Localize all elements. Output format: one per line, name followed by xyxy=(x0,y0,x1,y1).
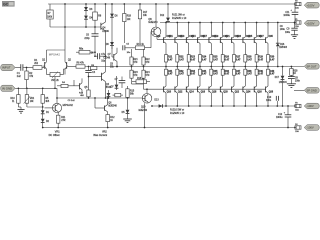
svg-text:Bias Current: Bias Current xyxy=(93,134,107,137)
label note bottom xyxy=(170,108,185,115)
diode D1 xyxy=(41,107,50,114)
resistor R37 emitter xyxy=(233,67,242,87)
resistor R29 emitter xyxy=(255,55,264,68)
resistor R17 xyxy=(138,4,148,45)
svg-text:R21: R21 xyxy=(133,59,138,61)
logo xyxy=(2,1,15,7)
connector P2 +100V xyxy=(304,20,319,26)
resistor R14 xyxy=(135,32,151,50)
wire base bus bottom xyxy=(144,88,267,90)
svg-text:MJE350: MJE350 xyxy=(139,110,148,112)
resistor R5 xyxy=(41,88,50,107)
svg-text:Q26: Q26 xyxy=(257,92,262,94)
ground input xyxy=(17,107,24,113)
svg-text:Q18: Q18 xyxy=(212,92,217,94)
svg-text:R8a: R8a xyxy=(79,49,84,51)
svg-text:VR1: VR1 xyxy=(55,131,60,134)
capacitor C7 xyxy=(115,77,126,89)
svg-text:Q22: Q22 xyxy=(235,92,240,94)
svg-text:MJE340: MJE340 xyxy=(108,106,117,108)
svg-text:Q21: Q21 xyxy=(225,36,230,38)
diode D12 rail xyxy=(160,4,170,23)
wire vas bus xyxy=(56,97,142,99)
transistor Q21 xyxy=(225,22,239,55)
trimmer R8 servo xyxy=(93,4,102,27)
wire D2-rail xyxy=(42,123,44,128)
svg-text:0.47: 0.47 xyxy=(247,73,252,76)
svg-text:0.47: 0.47 xyxy=(202,58,207,61)
svg-text:VR2: VR2 xyxy=(102,131,107,134)
transistor Q9 xyxy=(157,22,171,55)
resistor R10 xyxy=(10,88,20,107)
wire +V rail xyxy=(48,3,296,5)
transistor Q3 dc servo xyxy=(45,88,74,115)
svg-text:-100V: -100V xyxy=(306,126,314,130)
transistor Q13 xyxy=(180,22,194,55)
svg-text:D13: D13 xyxy=(154,99,159,101)
svg-text:R29: R29 xyxy=(259,57,264,59)
transistor Q23 xyxy=(237,22,251,55)
capacitor C4 feedback xyxy=(85,67,96,91)
resistor R1 xyxy=(33,60,44,69)
transistor Q22 xyxy=(232,86,240,107)
svg-text:R38: R38 xyxy=(247,71,252,73)
resistor R19 xyxy=(123,4,132,43)
svg-text:R17: R17 xyxy=(143,12,148,14)
svg-text:0.47: 0.47 xyxy=(247,58,252,61)
svg-text:0.47: 0.47 xyxy=(213,58,218,61)
svg-text:0.47: 0.47 xyxy=(236,73,241,76)
svg-text:1N5404: 1N5404 xyxy=(279,47,288,49)
svg-text:0.47: 0.47 xyxy=(213,73,218,76)
svg-text:1000u: 1000u xyxy=(283,15,290,17)
wire V+ drop xyxy=(64,4,66,50)
svg-text:R24: R24 xyxy=(202,56,207,59)
wire offset join xyxy=(27,106,44,108)
svg-text:1N5404: 1N5404 xyxy=(279,82,288,84)
capacitor C5 xyxy=(123,44,136,54)
svg-text:0.47: 0.47 xyxy=(270,73,275,76)
svg-text:Q19: Q19 xyxy=(214,36,219,38)
svg-text:Q17: Q17 xyxy=(203,36,208,38)
diode D8 xyxy=(106,42,114,49)
connector N2 -100V xyxy=(304,125,319,131)
transistor Q6 pre-driver xyxy=(95,97,118,114)
transistor Q10 xyxy=(164,86,172,107)
resistor R28 zobel xyxy=(290,67,298,76)
wire D1-D2 xyxy=(42,114,44,119)
connector P1 +100V xyxy=(304,2,319,8)
svg-text:0.47: 0.47 xyxy=(168,73,173,76)
svg-text:R27: R27 xyxy=(236,57,241,59)
svg-text:C3 2u2: C3 2u2 xyxy=(68,100,76,102)
resistor R23 emitter xyxy=(187,55,196,68)
trimmer VR1 offset xyxy=(24,88,35,107)
resistor R7 xyxy=(47,4,53,27)
resistor R31 emitter xyxy=(165,67,174,87)
wire output bus xyxy=(85,66,304,68)
svg-text:SP OUT: SP OUT xyxy=(306,64,317,68)
svg-text:100n: 100n xyxy=(295,81,301,83)
capacitor C7a xyxy=(94,52,106,62)
wire collector rail top xyxy=(160,22,296,24)
label MPSA42 pair xyxy=(49,52,61,56)
wire collector row xyxy=(50,26,100,28)
resistor R21 emitter xyxy=(165,55,174,68)
resistor R35 emitter xyxy=(210,67,219,87)
connector J3 SP OUT xyxy=(304,64,319,70)
svg-text:R23: R23 xyxy=(191,57,196,59)
svg-text:R30: R30 xyxy=(270,57,275,59)
diode D13 rail xyxy=(154,99,162,107)
svg-text:R.E50/5 x 10: R.E50/5 x 10 xyxy=(172,17,187,20)
transistor Q2 xyxy=(65,50,76,75)
transistor Q1 xyxy=(42,50,47,75)
fuse F4 xyxy=(295,124,301,133)
svg-text:0.47: 0.47 xyxy=(202,73,207,76)
wire bias string xyxy=(112,46,113,57)
svg-text:0.47: 0.47 xyxy=(179,73,184,76)
svg-text:R36: R36 xyxy=(225,71,230,73)
transistor Q5 vas xyxy=(88,56,112,99)
transistor Q14 xyxy=(186,86,194,107)
svg-text:R26: R26 xyxy=(225,57,230,59)
resistor R26 emitter xyxy=(221,55,230,68)
svg-text:100n: 100n xyxy=(266,100,272,102)
svg-text:Q25: Q25 xyxy=(248,36,253,38)
svg-text:Q12: Q12 xyxy=(178,92,183,94)
resistor R18 xyxy=(113,93,124,96)
connector J4 SP GND xyxy=(304,88,319,94)
resistor R40 emitter xyxy=(267,67,276,87)
svg-text:Q11: Q11 xyxy=(169,36,174,38)
transistor Q16 xyxy=(198,86,206,107)
svg-text:R10: R10 xyxy=(10,98,15,100)
wire input gnd bus xyxy=(15,87,57,89)
svg-text:0.47: 0.47 xyxy=(259,58,264,61)
transistor Q7 vbe multiplier xyxy=(103,48,117,68)
svg-text:R23: R23 xyxy=(133,72,138,74)
trimmer VR3 emitters xyxy=(47,69,66,88)
svg-text:0.47: 0.47 xyxy=(168,58,173,61)
capacitor C11 xyxy=(283,4,298,23)
capacitor C10 rail xyxy=(266,96,278,106)
transistor Q27 xyxy=(259,22,273,55)
svg-text:R40: R40 xyxy=(270,70,275,73)
svg-text:Q10: Q10 xyxy=(167,92,172,94)
svg-text:Q28: Q28 xyxy=(269,92,274,94)
diode D2 xyxy=(41,119,50,123)
resistor R38 emitter xyxy=(244,67,253,87)
capacitor C1 xyxy=(15,64,33,78)
svg-text:C7a: C7a xyxy=(101,54,106,56)
transistor Q5a mirror xyxy=(80,78,89,92)
svg-text:D12: D12 xyxy=(160,15,165,17)
diode D3 xyxy=(84,4,93,16)
wire -V rail xyxy=(42,127,296,129)
transistor Q28 xyxy=(266,86,274,107)
fuse F1 xyxy=(295,19,301,28)
resistor R34 emitter xyxy=(199,67,208,87)
svg-text:R31: R31 xyxy=(168,71,173,73)
svg-text:Q24: Q24 xyxy=(246,91,251,94)
resistor R12 xyxy=(106,115,115,128)
fuse F3 xyxy=(295,103,301,112)
svg-text:Q23: Q23 xyxy=(237,36,242,38)
svg-text:R28: R28 xyxy=(247,57,252,59)
transistor Q15 xyxy=(191,22,205,55)
resistor R2 xyxy=(25,67,34,89)
svg-text:0.47: 0.47 xyxy=(236,58,241,61)
resistor R36 emitter xyxy=(221,67,230,87)
svg-text:C1548: C1548 xyxy=(103,57,110,59)
connector J2 IN GND xyxy=(1,85,16,91)
svg-text:27R: 27R xyxy=(61,120,66,122)
svg-text:C10: C10 xyxy=(267,97,272,99)
resistor R6 xyxy=(76,63,85,69)
svg-text:Q27: Q27 xyxy=(259,36,264,38)
resistor R8a xyxy=(76,49,96,55)
label DC offset xyxy=(49,131,61,138)
svg-text:R34: R34 xyxy=(202,70,207,73)
svg-text:0.47: 0.47 xyxy=(270,58,275,61)
transistor Q26 xyxy=(254,86,262,107)
resistor R9 xyxy=(91,65,97,70)
resistor R30 emitter xyxy=(267,55,276,68)
svg-text:R6 47k: R6 47k xyxy=(77,63,85,65)
svg-text:0.47: 0.47 xyxy=(179,58,184,61)
svg-text:R24: R24 xyxy=(145,72,150,74)
svg-text:0.47: 0.47 xyxy=(225,58,230,61)
resistor R28 emitter xyxy=(244,55,253,68)
resistor R32 emitter xyxy=(176,67,185,87)
resistor R24 xyxy=(142,67,150,85)
svg-text:GC: GC xyxy=(3,3,9,7)
svg-text:R22: R22 xyxy=(179,57,184,59)
transistor Q17 xyxy=(203,22,217,55)
resistor R21 xyxy=(130,49,138,67)
svg-text:Q13: Q13 xyxy=(180,36,185,38)
ground zobel xyxy=(287,84,296,88)
resistor R11 xyxy=(57,115,66,127)
capacitor C6 xyxy=(84,27,98,52)
resistor R23 xyxy=(130,67,138,85)
svg-text:0.47: 0.47 xyxy=(225,73,230,76)
transistor Q4 bias xyxy=(101,4,110,57)
svg-text:R.E50/5 x 10: R.E50/5 x 10 xyxy=(170,112,185,115)
svg-text:R15: R15 xyxy=(130,91,135,93)
svg-text:100u: 100u xyxy=(285,32,291,34)
wire ladder join xyxy=(132,84,144,89)
resistor R22 emitter xyxy=(176,55,185,68)
svg-text:MJE340: MJE340 xyxy=(148,21,158,24)
svg-text:MPSA42: MPSA42 xyxy=(63,103,74,107)
capacitor C12 xyxy=(276,106,291,128)
transistor Q20 xyxy=(220,86,228,107)
transistor Q11 xyxy=(169,22,183,55)
resistor R15 xyxy=(126,86,135,98)
svg-text:INPUT: INPUT xyxy=(2,66,11,70)
svg-text:0.47: 0.47 xyxy=(191,73,196,76)
svg-text:0.47: 0.47 xyxy=(259,73,264,76)
svg-text:R19: R19 xyxy=(127,16,132,18)
svg-text:A1306: A1306 xyxy=(102,30,109,33)
diode D17 catch lower xyxy=(275,66,288,107)
svg-text:+100V: +100V xyxy=(306,21,314,25)
svg-text:Q15: Q15 xyxy=(191,36,196,38)
svg-text:IN GND: IN GND xyxy=(2,86,12,90)
svg-text:R12: R12 xyxy=(110,117,115,119)
wire base bus top xyxy=(157,38,266,40)
svg-text:R33: R33 xyxy=(191,71,196,73)
transistor Q12 xyxy=(175,86,183,107)
resistor R25 emitter xyxy=(210,55,219,68)
svg-text:R37: R37 xyxy=(236,71,241,73)
svg-text:Q20: Q20 xyxy=(223,92,228,94)
resistor R39 emitter xyxy=(255,67,264,87)
svg-text:VR1: VR1 xyxy=(30,98,35,100)
svg-text:DC Offset: DC Offset xyxy=(49,134,60,137)
svg-text:1000u: 1000u xyxy=(276,117,283,119)
svg-text:MPSA42: MPSA42 xyxy=(49,52,61,56)
transistor Q24 xyxy=(243,86,251,107)
transistor Q18 xyxy=(209,86,217,107)
svg-text:-100V: -100V xyxy=(306,104,314,108)
resistor R13a feedback xyxy=(79,90,90,99)
resistor R22 xyxy=(142,49,150,67)
svg-text:+100V: +100V xyxy=(306,3,314,7)
svg-text:C95: C95 xyxy=(269,36,274,38)
svg-text:2u2: 2u2 xyxy=(17,76,22,78)
svg-text:SP GND: SP GND xyxy=(306,88,317,92)
resistor R27 emitter xyxy=(233,55,242,68)
transistor Q25 xyxy=(248,22,262,55)
svg-text:C12: C12 xyxy=(278,114,283,116)
ground bias xyxy=(123,119,132,123)
transistor Q10 driver xyxy=(139,88,152,127)
capacitor C3 xyxy=(68,100,76,102)
capacitor C8 zobel xyxy=(288,75,301,83)
fuse F2 xyxy=(295,1,301,10)
capacitor C9 bypass xyxy=(285,22,298,39)
svg-text:R21: R21 xyxy=(168,57,173,59)
wire collector bracket xyxy=(47,49,66,51)
connector N1 -100V xyxy=(304,103,319,109)
svg-text:0.47: 0.47 xyxy=(191,58,196,61)
resistor R24 emitter xyxy=(199,55,208,68)
resistor R16 xyxy=(132,78,150,84)
svg-text:220p: 220p xyxy=(84,38,90,40)
diode D6 xyxy=(110,4,118,42)
diode D15 catch upper xyxy=(276,22,288,68)
svg-text:R22: R22 xyxy=(145,59,150,61)
svg-text:R39: R39 xyxy=(259,71,264,73)
svg-text:R25: R25 xyxy=(213,57,218,59)
svg-text:Q10: Q10 xyxy=(141,107,146,109)
wire speaker gnd xyxy=(294,89,304,91)
svg-text:Q16: Q16 xyxy=(201,92,206,94)
label bias current xyxy=(93,131,107,138)
label C8 55k xyxy=(110,63,115,68)
diode D5 bias xyxy=(122,98,130,119)
transistor Q19 xyxy=(214,22,228,55)
transistor Q8 driver xyxy=(148,4,160,39)
label note top xyxy=(172,13,187,20)
resistor R4 mirror xyxy=(57,80,80,88)
diode D9 xyxy=(107,90,111,99)
svg-text:R14 1k: R14 1k xyxy=(137,44,145,46)
diode D4 xyxy=(84,16,93,27)
svg-text:R35: R35 xyxy=(213,71,218,73)
diode D7 zener xyxy=(111,76,119,90)
svg-text:Q14: Q14 xyxy=(189,91,194,94)
svg-text:100u: 100u xyxy=(280,29,286,31)
resistor R33 emitter xyxy=(187,67,196,87)
wire collector rail bottom xyxy=(151,105,296,107)
svg-text:R32: R32 xyxy=(179,71,184,73)
connector J1 INPUT xyxy=(1,64,16,70)
